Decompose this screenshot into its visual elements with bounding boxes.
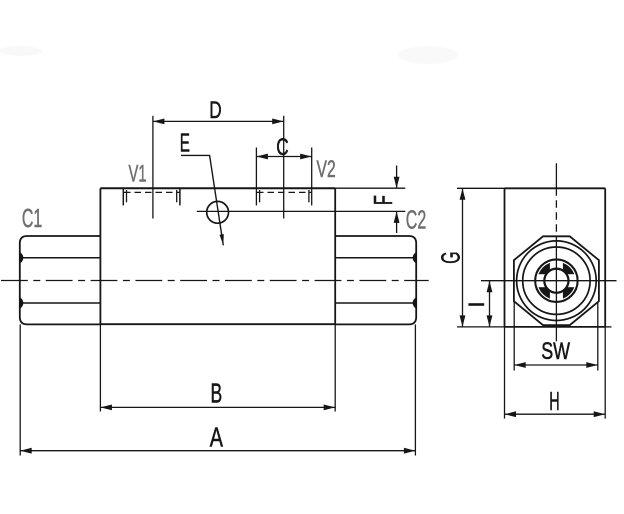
socket outer circle	[535, 260, 577, 302]
port V2 inner thread tick right	[308, 190, 310, 202]
valve body right edge	[334, 188, 336, 324]
arrowhead C right	[300, 154, 312, 160]
faint smudge top-middle	[398, 46, 458, 64]
port V2 outer thread tick right / C extension	[311, 148, 313, 206]
dimension line F upper segment	[396, 166, 398, 189]
svg-text:E: E	[180, 128, 190, 158]
dimension line C	[256, 156, 311, 158]
svg-text:G: G	[435, 251, 465, 263]
arrowhead C left	[256, 154, 268, 160]
arrowhead D right	[272, 119, 284, 125]
port V1 inner thread tick right	[176, 190, 178, 202]
hex plug outline (end view)	[514, 236, 599, 325]
label I (rotated)	[468, 303, 484, 306]
svg-text:B: B	[211, 377, 223, 408]
side view vertical centreline dashed	[555, 188, 557, 236]
extension line A right	[414, 324, 416, 455]
orifice circle E	[207, 201, 229, 223]
hex C2 chamfer wedge lower	[413, 298, 416, 308]
chamfer circle outer	[517, 241, 597, 321]
socket drive band annulus	[541, 265, 573, 297]
arrowhead SW left	[514, 362, 526, 368]
port V1 thread dashed line	[124, 191, 180, 193]
socket slot top	[550, 260, 563, 270]
valve body left edge	[99, 188, 101, 324]
arrowhead D left	[153, 119, 165, 125]
leader line E	[181, 155, 223, 245]
side view left edge	[504, 188, 506, 327]
hex C1 chamfer wedge upper	[21, 253, 24, 263]
svg-text:V1: V1	[129, 160, 147, 187]
extension line SW left	[513, 302, 515, 371]
arrowhead SW right	[586, 362, 598, 368]
arrowhead H left	[505, 411, 517, 417]
socket slot bottom	[550, 292, 563, 302]
extension line F top	[335, 187, 405, 189]
arrowhead B right	[324, 405, 336, 411]
arrowhead A left	[20, 448, 32, 454]
arrowhead I top	[487, 281, 493, 293]
main axis centreline	[1, 280, 429, 282]
side view right edge	[604, 188, 606, 327]
arrowhead G top	[460, 188, 466, 200]
dimension line I	[489, 281, 491, 327]
socket inner circle re-stroke	[544, 269, 568, 293]
svg-text:V2: V2	[317, 156, 336, 183]
extension line B right	[334, 324, 336, 411]
dimension line D	[153, 120, 284, 122]
chamfer circle inner	[523, 247, 590, 314]
arrowhead B left	[100, 405, 112, 411]
hex C1 facet line upper	[20, 257, 101, 259]
side view bottom edge	[505, 326, 606, 328]
svg-text:SW: SW	[541, 338, 570, 365]
port V2 centreline	[283, 116, 285, 219]
arrowhead F upper	[394, 177, 400, 189]
hex end fitting C1 outline	[20, 236, 101, 324]
arrowhead H right	[594, 411, 606, 417]
extension line H right	[604, 327, 606, 419]
leader arrowhead E	[220, 234, 224, 245]
side view bottom edge overshoot	[605, 326, 611, 328]
port V1 inner thread tick left	[126, 190, 128, 202]
extension line A left	[19, 324, 21, 455]
port V2 inner thread tick left	[259, 190, 261, 202]
socket slot left	[535, 274, 545, 287]
svg-text:H: H	[549, 386, 559, 416]
port V1 outer thread tick left	[122, 189, 124, 206]
socket outer circle re-stroke	[535, 260, 577, 302]
arrowhead A right	[404, 448, 416, 454]
dimension line A	[20, 450, 415, 452]
port V2 thread dashed line	[257, 191, 311, 193]
svg-text:F: F	[368, 195, 398, 205]
svg-text:C: C	[276, 134, 288, 161]
cross-drilling line through E / F bottom extension	[197, 210, 405, 212]
hex C1 chamfer wedge lower	[21, 298, 24, 308]
hex C2 facet line lower	[335, 302, 416, 304]
extension line G top	[457, 187, 505, 189]
arrowhead I bottom	[487, 315, 493, 327]
arrowhead F lower	[394, 211, 400, 223]
extension line SW right	[597, 302, 599, 371]
hex end fitting C2 outline	[335, 236, 416, 324]
port V1 outer thread tick right	[179, 189, 181, 206]
side view top edge	[505, 187, 606, 189]
socket slot right	[567, 274, 577, 287]
extension line G bottom	[457, 326, 505, 328]
hex C1 facet line lower	[20, 302, 101, 304]
dimension line H	[505, 413, 606, 415]
valve body top edge	[100, 187, 335, 189]
svg-text:C2: C2	[406, 204, 426, 234]
dimension line B	[100, 406, 335, 408]
dimension line F lower segment	[396, 211, 398, 233]
side view horizontal centreline / I top extension	[481, 280, 617, 282]
side view vertical centreline through hex	[555, 236, 557, 341]
svg-text:A: A	[210, 422, 223, 453]
hex C2 facet line upper	[335, 257, 416, 259]
side view vertical centreline upper	[555, 163, 557, 188]
dimension line SW	[514, 364, 598, 366]
extension line B left	[99, 324, 101, 411]
svg-text:D: D	[209, 97, 221, 124]
port V2 outer thread tick left / C extension	[255, 148, 257, 206]
faint smudge top-left	[0, 46, 42, 56]
port V1 centreline	[152, 116, 154, 219]
svg-text:C1: C1	[22, 203, 42, 233]
hex C2 chamfer wedge upper	[413, 253, 416, 263]
socket inner circle	[544, 269, 568, 293]
extension line H left	[504, 327, 506, 419]
dimension line G	[462, 188, 464, 327]
valve body bottom edge	[100, 323, 335, 325]
arrowhead G bottom	[460, 315, 466, 327]
